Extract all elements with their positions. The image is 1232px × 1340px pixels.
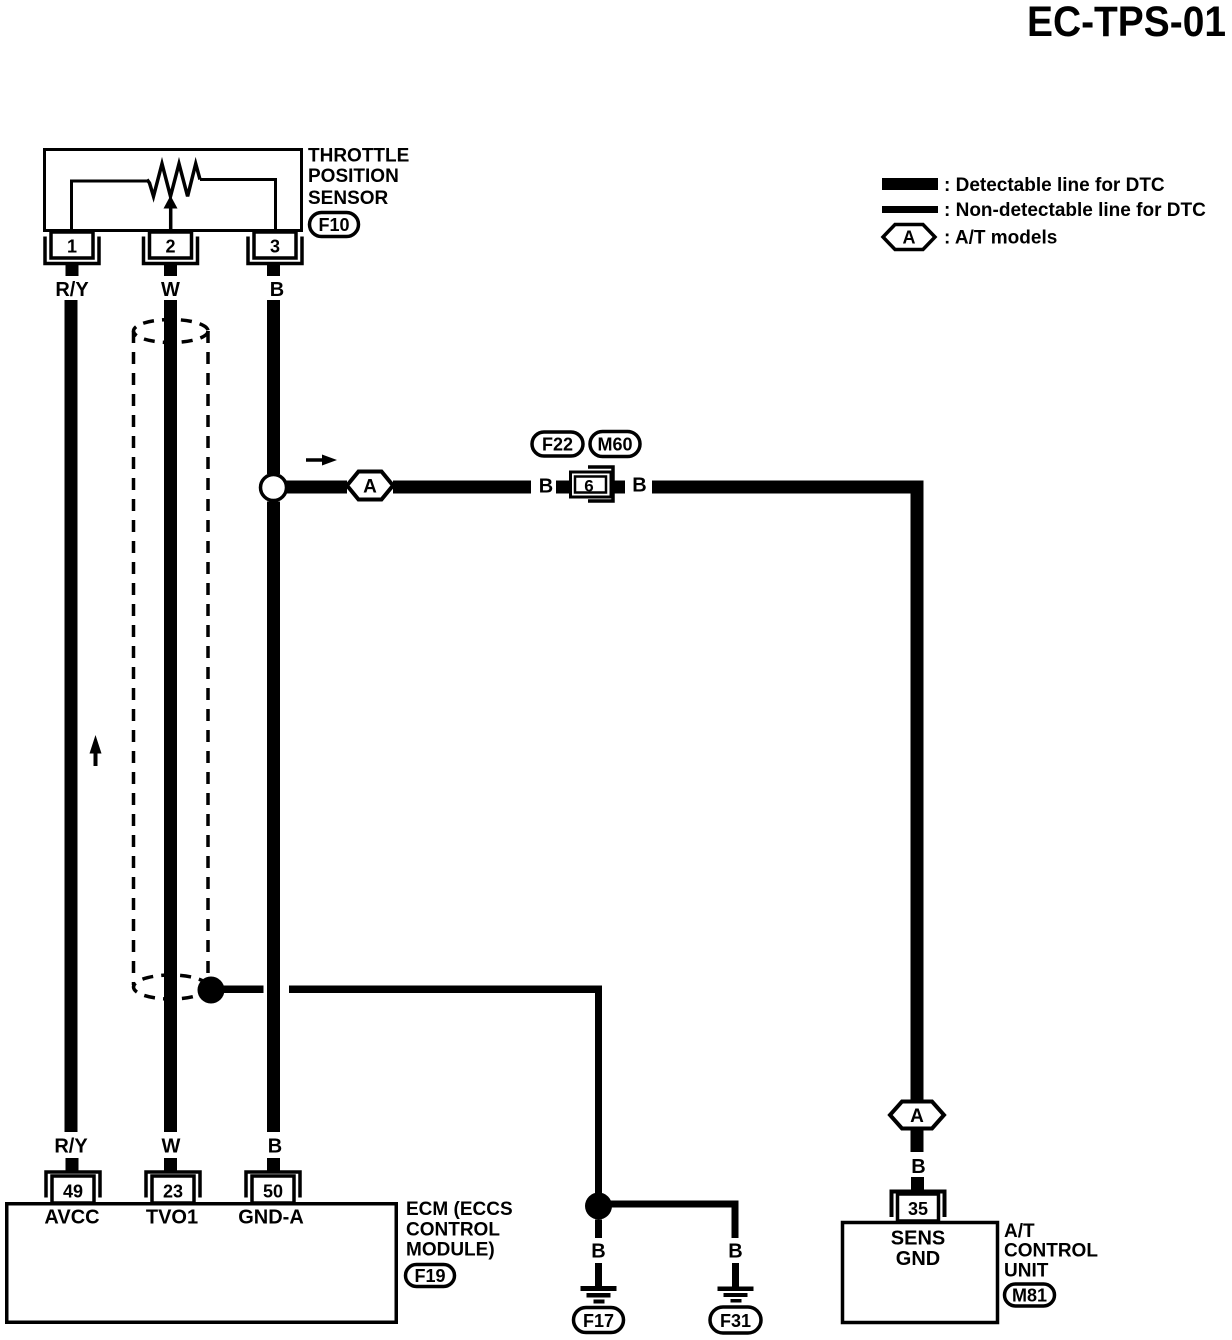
title EC-TPS-01 — [1027, 0, 1226, 46]
wire B vertical lower — [267, 502, 280, 1133]
svg-text:3: 3 — [270, 237, 280, 257]
ECM pin name GND-A — [238, 1207, 304, 1229]
wire branch horizontal segment 3 — [652, 481, 924, 494]
svg-text:2: 2 — [165, 237, 175, 257]
svg-text:F31: F31 — [720, 1311, 751, 1331]
shield left dashed line — [132, 331, 136, 985]
connector oval F19 — [406, 1265, 455, 1287]
svg-text:B: B — [911, 1156, 925, 1178]
svg-text:AVCC: AVCC — [44, 1207, 99, 1229]
pin 1 bracket — [45, 237, 99, 264]
svg-text:50: 50 — [263, 1182, 283, 1202]
svg-text:: Detectable line for DTC: : Detectable line for DTC — [944, 175, 1165, 196]
ground branch vertical to F31 — [732, 1201, 739, 1239]
pin 50 bracket — [246, 1172, 300, 1198]
svg-text:A: A — [910, 1106, 924, 1127]
wire W vertical — [164, 300, 177, 1132]
svg-text:6: 6 — [584, 477, 593, 496]
shield junction dot — [198, 977, 225, 1004]
svg-text:GND-A: GND-A — [238, 1207, 304, 1229]
pin 50 stub — [267, 1158, 280, 1171]
ground wire stub below junction — [595, 1220, 602, 1239]
pin 3 stub — [267, 264, 280, 276]
svg-text:B: B — [591, 1241, 605, 1263]
node circle on B wire — [261, 475, 287, 501]
svg-text:49: 49 — [63, 1182, 83, 1202]
legend non-detectable text — [944, 200, 1206, 221]
connector 6 inner box — [575, 477, 606, 496]
pin 2 stub — [164, 264, 177, 276]
SENS GND label — [891, 1228, 945, 1271]
wire label W bottom — [162, 1136, 181, 1158]
shield right dashed line — [206, 331, 210, 985]
svg-text:M60: M60 — [597, 435, 632, 455]
ground symbol F31 — [718, 1287, 754, 1303]
pin 1 stub — [66, 264, 79, 276]
pin 1 box — [51, 232, 93, 258]
ground wire horizontal segment right of B wire — [289, 986, 602, 994]
legend detectable line bar — [882, 178, 938, 190]
sensor name label — [308, 146, 409, 210]
pin 23 box — [152, 1176, 194, 1203]
ground symbol F17 — [581, 1286, 617, 1304]
ground F17 stub — [595, 1263, 602, 1286]
svg-text:F10: F10 — [318, 215, 349, 235]
wire label B bottom — [268, 1136, 282, 1158]
wire label W top — [161, 279, 180, 301]
pin 35 bracket — [892, 1192, 945, 1218]
svg-text:CONTROL: CONTROL — [406, 1220, 500, 1241]
legend A/T models text — [944, 228, 1057, 249]
svg-text:: Non-detectable line for DTC: : Non-detectable line for DTC — [944, 200, 1206, 221]
pin 49 bracket — [46, 1172, 100, 1198]
wire stub below hexagon — [911, 1129, 924, 1153]
svg-text:SENS: SENS — [891, 1228, 945, 1250]
wire B vertical upper — [267, 300, 280, 474]
ECM name label — [406, 1199, 513, 1261]
A/T control unit box — [843, 1223, 998, 1323]
pin 23 stub — [164, 1158, 177, 1171]
connector oval F31 — [710, 1307, 761, 1333]
legend non-detectable line bar — [882, 206, 938, 213]
svg-text:B: B — [728, 1241, 742, 1263]
wire label R/Y top — [55, 279, 89, 301]
svg-text:W: W — [161, 279, 180, 301]
ground wire vertical down — [595, 986, 602, 1196]
connector oval M60 — [590, 432, 640, 457]
svg-text:A: A — [903, 228, 916, 248]
shield top ellipse — [134, 320, 209, 343]
svg-text:MODULE): MODULE) — [406, 1240, 495, 1261]
pin 50 box — [252, 1176, 294, 1203]
svg-text:SENSOR: SENSOR — [308, 188, 389, 209]
connector 6 bracket — [588, 467, 613, 501]
svg-text:M81: M81 — [1012, 1286, 1047, 1306]
svg-text:POSITION: POSITION — [308, 166, 399, 187]
svg-text:UNIT: UNIT — [1004, 1261, 1049, 1282]
pin 2 box — [150, 232, 192, 258]
ground wire horizontal segment left of B wire — [218, 986, 264, 994]
svg-text:B: B — [270, 279, 284, 301]
pin 3 box — [254, 232, 296, 258]
pin 49 stub — [66, 1158, 79, 1171]
svg-text:A/T: A/T — [1004, 1221, 1035, 1242]
connector 6 outer box — [571, 472, 612, 497]
connector 6 left stub — [556, 481, 569, 494]
connector oval M81 — [1005, 1284, 1055, 1306]
wire stub above pin 35 — [911, 1177, 924, 1190]
connector oval F17 — [574, 1308, 624, 1333]
shield bottom ellipse — [134, 975, 209, 999]
svg-text:W: W — [162, 1136, 181, 1158]
hexagon A/T marker on branch — [347, 472, 393, 500]
legend detectable text — [944, 175, 1165, 196]
wire color label B above pin 35 — [911, 1156, 925, 1178]
resistor left lead — [72, 181, 149, 232]
ECM pin name AVCC — [44, 1207, 99, 1229]
wire R/Y vertical — [65, 300, 78, 1132]
pin 49 box — [52, 1176, 94, 1203]
svg-text:R/Y: R/Y — [54, 1136, 88, 1158]
wire color label B right of connector 6 — [632, 475, 646, 497]
junction dot above grounds — [585, 1193, 612, 1220]
throttle position sensor box — [45, 150, 302, 231]
svg-text:B: B — [539, 476, 553, 498]
svg-text:GND: GND — [896, 1248, 940, 1270]
wire color label B above F31 — [728, 1241, 742, 1263]
svg-text:F19: F19 — [414, 1266, 445, 1286]
svg-text:F17: F17 — [583, 1311, 614, 1331]
pin 3 bracket — [248, 237, 302, 264]
resistor zigzag (potentiometer) — [147, 164, 200, 197]
wire branch horizontal segment 1 — [286, 481, 347, 494]
svg-text:B: B — [268, 1136, 282, 1158]
svg-text:A: A — [363, 477, 377, 498]
flow arrow right on branch — [306, 455, 337, 466]
pin 23 bracket — [146, 1172, 200, 1198]
svg-text:ECM (ECCS: ECM (ECCS — [406, 1199, 513, 1220]
ground F31 stub — [732, 1263, 739, 1287]
svg-text:R/Y: R/Y — [55, 279, 89, 301]
svg-text:TVO1: TVO1 — [146, 1207, 198, 1229]
A/T control unit name label — [1004, 1221, 1098, 1282]
connector oval F22 — [532, 432, 583, 456]
svg-text:F22: F22 — [542, 435, 573, 455]
pin 2 bracket — [144, 237, 198, 264]
ECM pin name TVO1 — [146, 1207, 198, 1229]
legend A/T models hexagon — [883, 225, 935, 250]
svg-text:: A/T models: : A/T models — [944, 228, 1057, 249]
wire right vertical to A/T unit — [911, 481, 924, 1102]
svg-text:23: 23 — [163, 1182, 183, 1202]
wiper arrow — [164, 196, 178, 233]
svg-text:1: 1 — [67, 237, 77, 257]
resistor right lead — [200, 180, 276, 233]
wire label R/Y bottom — [54, 1136, 88, 1158]
wire label B top — [270, 279, 284, 301]
wire color label B above F17 — [591, 1241, 605, 1263]
svg-text:THROTTLE: THROTTLE — [308, 146, 409, 167]
svg-text:B: B — [632, 475, 646, 497]
ground branch horizontal to F31 — [599, 1201, 739, 1208]
wire branch horizontal segment 2 — [393, 481, 531, 494]
wire color label B left of connector 6 — [539, 476, 553, 498]
svg-text:CONTROL: CONTROL — [1004, 1241, 1098, 1262]
svg-text:EC-TPS-01: EC-TPS-01 — [1027, 0, 1226, 46]
ECM box — [7, 1204, 397, 1323]
pin 35 box — [898, 1194, 939, 1221]
flow arrow up on R/Y wire — [90, 735, 102, 766]
connector oval F10 — [310, 213, 359, 237]
svg-text:35: 35 — [908, 1199, 928, 1219]
hexagon A/T marker above pin 35 — [890, 1102, 944, 1129]
connector 6 right stub — [613, 481, 625, 494]
